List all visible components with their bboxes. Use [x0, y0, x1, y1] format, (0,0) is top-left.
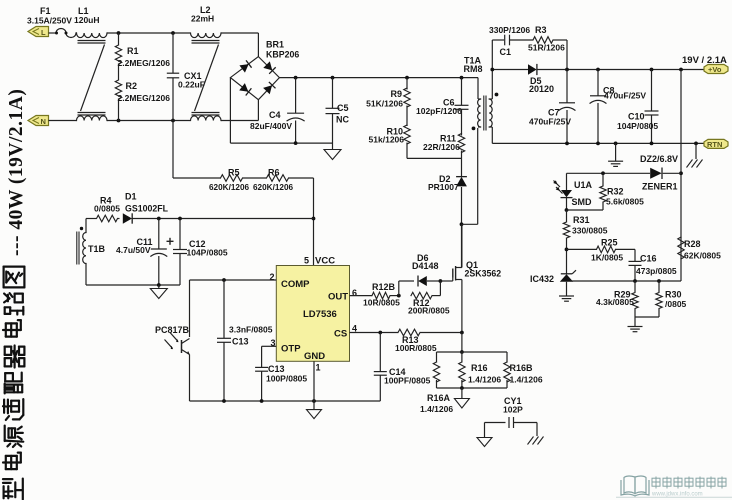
common-mode choke L1 (line winding): [74, 6, 107, 38]
svg-text:www.jdwx.info.com: www.jdwx.info.com: [651, 492, 703, 498]
optocoupler transistor PC817B: [155, 325, 190, 401]
svg-text:0.22uF: 0.22uF: [178, 80, 205, 90]
resistor R13 100R/0805: [395, 329, 464, 353]
svg-text:5.6k/0805: 5.6k/0805: [606, 197, 644, 207]
svg-text:+Vo: +Vo: [708, 65, 722, 74]
svg-text:--- 40W (19V/2.1A): --- 40W (19V/2.1A): [6, 89, 27, 256]
capacitor CY1 102P (Y-cap): [485, 396, 538, 438]
wire +Vo down to zener row and R28: [679, 70, 683, 282]
svg-text:C16: C16: [640, 254, 657, 264]
svg-text:BR1: BR1: [266, 40, 284, 50]
wire CX1 node down to R5: [173, 121, 221, 179]
svg-text:100R/0805: 100R/0805: [395, 343, 437, 353]
shunt regulator IC432: [530, 270, 576, 296]
svg-text:1K/0805: 1K/0805: [591, 253, 623, 263]
svg-text:3.15A/250V: 3.15A/250V: [27, 16, 72, 26]
common-mode choke L1 (neutral winding): [77, 116, 108, 121]
svg-text:C13: C13: [268, 364, 285, 374]
transformer T1A secondary winding: [489, 70, 492, 144]
resistor R29 4.3k/0805: [596, 281, 638, 317]
svg-text:120uH: 120uH: [74, 15, 100, 25]
resistor R6 620K/1206: [253, 168, 294, 193]
svg-text:IC432: IC432: [530, 274, 554, 284]
resistor R9 51K/1206: [404, 78, 410, 126]
svg-text:CS: CS: [334, 329, 347, 340]
svg-text:1.4/1206: 1.4/1206: [510, 375, 543, 385]
terminal RTN: [704, 139, 728, 149]
svg-text:82uF/400V: 82uF/400V: [250, 121, 292, 131]
svg-text:22mH: 22mH: [191, 14, 214, 24]
svg-text:R3: R3: [535, 25, 547, 35]
capacitor CX1 0.22uF (X-cap): [167, 33, 205, 121]
capacitor C6 102pF/1206: [455, 78, 469, 136]
svg-text:0/0805: 0/0805: [94, 204, 120, 214]
capacitor C5 NC: [326, 78, 350, 150]
svg-text:102pF/1206: 102pF/1206: [416, 106, 462, 116]
svg-text:620K/1206: 620K/1206: [209, 183, 250, 192]
svg-text:102P: 102P: [503, 405, 523, 415]
phase dot T1A secondary: [495, 93, 499, 97]
IC432 ground symbol: [559, 296, 574, 301]
resistor R12 200R/0805: [408, 281, 450, 316]
wire R6 to VCC node: [289, 178, 316, 266]
svg-text:/0805: /0805: [665, 299, 687, 309]
transformer T1A RM8 primary winding: [478, 78, 481, 127]
svg-text:2.2MEG/1206: 2.2MEG/1206: [118, 93, 171, 103]
capacitor C13 3.3nF/0805: [217, 280, 273, 401]
aux ground rail: [86, 283, 180, 288]
svg-text:104P/0805: 104P/0805: [617, 121, 658, 131]
op-amp/controller U LD7536: [276, 266, 349, 363]
capacitor C14 100PF/0805: [374, 333, 431, 402]
svg-text:10R/0805: 10R/0805: [363, 298, 400, 308]
svg-text:LD7536: LD7536: [303, 309, 337, 320]
svg-text:R5: R5: [228, 168, 240, 178]
svg-text:R16: R16: [471, 363, 488, 373]
wire primary bottom pin to drain node: [462, 128, 478, 224]
resistor R1 2.2MEG/1206: [115, 33, 170, 80]
wire L rail L1 to L2: [107, 31, 190, 35]
CY1 chassis ground symbol: [528, 437, 544, 445]
svg-text:3.3nF/0805: 3.3nF/0805: [229, 325, 273, 335]
svg-text:620K/1206: 620K/1206: [253, 183, 294, 192]
svg-text:62K/0805: 62K/0805: [684, 251, 721, 261]
svg-text:4.7u/50V: 4.7u/50V: [116, 245, 151, 255]
resistor R16A 1.4/1206: [420, 352, 453, 414]
svg-text:R6: R6: [268, 168, 280, 178]
pin 5 VCC label: [304, 256, 335, 267]
terminal L (AC line input): [28, 27, 49, 38]
diode D6 D4148 (turn-off): [399, 276, 443, 296]
diode D5 20120 (output rectifier): [490, 64, 554, 94]
svg-text:R12B: R12B: [372, 282, 396, 292]
terminal +Vo: [704, 65, 728, 75]
svg-text:GS1002FL: GS1002FL: [125, 204, 169, 214]
svg-text:R30: R30: [665, 290, 682, 300]
bridge rectifier BR1 KBP206: [230, 40, 299, 100]
sense bank bottom rail: [437, 386, 508, 398]
wire OUT pin to R12B: [350, 295, 373, 297]
svg-text:F1: F1: [40, 6, 51, 16]
pin 6 label: [352, 288, 357, 298]
svg-text:RM8: RM8: [464, 64, 483, 74]
resistor R12B 10R/0805: [363, 282, 401, 308]
wire N terminal to L1: [49, 120, 77, 122]
svg-text:470uF/25V: 470uF/25V: [604, 91, 646, 101]
svg-text:C13: C13: [232, 337, 249, 347]
resistor R4 0/0805: [86, 196, 120, 222]
svg-text:20120: 20120: [529, 84, 554, 94]
svg-text:1.4/1206: 1.4/1206: [420, 404, 453, 414]
svg-text:PR1007: PR1007: [428, 182, 459, 192]
svg-text:R28: R28: [684, 239, 701, 249]
snubber loop wire: [492, 40, 567, 70]
resistor R10 51k/1206: [404, 125, 462, 158]
svg-text:330P/1206: 330P/1206: [489, 25, 530, 35]
svg-text:C4: C4: [269, 110, 281, 120]
primary DC- bottom rail: [230, 141, 332, 145]
wire Q1 source to sense bank: [460, 333, 464, 354]
capacitor C16 473p/0805: [629, 249, 677, 281]
resistor R16B 1.4/1206: [504, 352, 543, 388]
svg-text:470uF/25V: 470uF/25V: [529, 117, 571, 127]
svg-text:OUT: OUT: [328, 292, 348, 303]
svg-text:RTN: RTN: [707, 140, 722, 149]
svg-text:5: 5: [304, 256, 309, 266]
primary logic ground rail: [190, 399, 381, 403]
svg-text:22R/1206: 22R/1206: [423, 142, 460, 152]
CY1 primary ground symbol: [477, 438, 492, 447]
resistor R3 51R/1206: [528, 25, 565, 53]
svg-text:51K/1206: 51K/1206: [366, 99, 403, 109]
svg-text:VCC: VCC: [315, 256, 335, 267]
resistor R2 2.2MEG/1206: [115, 80, 170, 121]
pin 4 label: [352, 324, 357, 334]
svg-text:R2: R2: [126, 81, 138, 91]
sense bank top rail: [437, 351, 508, 353]
transistor Q1 2SK3562 (MOSFET): [453, 224, 501, 332]
capacitor C4 82uF/400V (bulk): [250, 78, 304, 144]
svg-text:1: 1: [316, 363, 321, 373]
svg-text:R32: R32: [607, 187, 624, 197]
output +V rail: [537, 68, 704, 72]
svg-text:C1: C1: [500, 47, 512, 57]
sense ground symbol: [454, 399, 469, 409]
watermark url text: [616, 492, 732, 498]
zener row wire: [567, 171, 682, 175]
svg-text:6: 6: [352, 288, 357, 298]
wire CS pin to R13: [350, 331, 399, 335]
wire DC+ rail from bridge right corner: [279, 76, 478, 80]
secondary ground symbol: [608, 143, 623, 166]
output label 19V / 2.1A: [682, 55, 727, 66]
capacitor C8 470uF/25V: [590, 70, 646, 144]
wire COMP pin to opto collector node: [190, 278, 277, 337]
diode D2 PR1007 (clamp): [456, 158, 467, 267]
svg-text:51k/1206: 51k/1206: [369, 135, 405, 145]
wire R5 to R6: [243, 177, 267, 179]
phase dot T1A primary: [472, 126, 476, 130]
feedback ref row: [570, 279, 681, 283]
svg-text:D1: D1: [125, 192, 137, 202]
resistor R16 1.4/1206: [459, 352, 502, 388]
svg-text:R25: R25: [601, 238, 618, 248]
svg-text:C10: C10: [628, 112, 645, 122]
wire fuse to L1: [76, 32, 77, 34]
capacitor C13 100P/0805: [255, 364, 307, 401]
RTN rail: [492, 142, 704, 146]
wire L rail L2 to bridge top: [221, 33, 258, 57]
wire L terminal to fuse: [49, 32, 57, 34]
choke L1 core (Z symbol): [78, 41, 106, 116]
svg-text:R9: R9: [390, 89, 402, 99]
svg-text:473p/0805: 473p/0805: [636, 266, 677, 276]
svg-text:KBP206: KBP206: [266, 50, 299, 60]
svg-text:N: N: [41, 117, 46, 126]
svg-text:2.2MEG/1206: 2.2MEG/1206: [118, 58, 171, 68]
watermark text 家电维修资料网: [652, 477, 726, 489]
choke L2 core (Z symbol): [192, 41, 220, 116]
pin 2 label: [270, 272, 275, 282]
wire bridge negative (left corner) down to primary DC- rail: [229, 78, 231, 144]
svg-text:R16B: R16B: [510, 363, 534, 373]
svg-text:ZENER1: ZENER1: [642, 182, 678, 192]
svg-text:R16A: R16A: [427, 393, 451, 403]
svg-text:D4148: D4148: [412, 261, 439, 271]
wire OTP pin to C13: [262, 346, 277, 367]
svg-text:51R/1206: 51R/1206: [528, 43, 565, 53]
fuse F1: [55, 29, 76, 38]
svg-text:100PF/0805: 100PF/0805: [384, 376, 431, 386]
resistor R28 62K/0805: [678, 237, 721, 261]
chassis earth at RTN: [687, 143, 703, 167]
resistor R11 22R/1206: [423, 134, 465, 159]
resistor R30 /0805: [656, 281, 687, 317]
svg-text:2SK3562: 2SK3562: [465, 269, 502, 279]
watermark book icon: [621, 476, 649, 496]
svg-text:200R/0805: 200R/0805: [408, 306, 450, 316]
resistor R32 5.6k/0805: [567, 173, 645, 210]
vertical title 40W (19V/2.1A): [6, 89, 27, 256]
pin 1 label: [316, 363, 321, 373]
wire gate node to Q1 gate: [440, 278, 452, 282]
transformer T1A core: [484, 96, 486, 131]
svg-text:100P/0805: 100P/0805: [266, 374, 307, 384]
svg-text:GND: GND: [304, 351, 325, 362]
IC ground symbol: [307, 410, 322, 419]
svg-text:L: L: [41, 28, 46, 37]
svg-text:NC: NC: [336, 115, 349, 125]
svg-text:T1B: T1B: [88, 244, 106, 254]
capacitor C10 104P/0805: [617, 70, 659, 144]
transformer T1B aux winding: [77, 219, 106, 286]
svg-text:U1A: U1A: [574, 180, 593, 190]
common-mode choke L2 (neutral winding): [191, 116, 222, 121]
wire N rail L2 to bridge bottom: [221, 100, 258, 121]
svg-text:OTP: OTP: [281, 344, 301, 355]
svg-text:C5: C5: [337, 103, 349, 113]
svg-text:COMP: COMP: [281, 279, 310, 290]
wire N rail L1 to L2: [107, 119, 190, 123]
terminal N (AC neutral input): [28, 116, 49, 127]
capacitor C1 330P/1206: [489, 25, 530, 57]
R29 R30 bottom wire: [635, 317, 659, 327]
divider ground symbol: [628, 327, 643, 332]
resistor R31 330/0805: [563, 210, 607, 274]
resistor R25 1K/0805: [567, 238, 636, 263]
svg-text:4.3k/0805: 4.3k/0805: [596, 297, 634, 307]
capacitor C12 104P/0805: [173, 219, 228, 286]
primary ground below C5: [324, 150, 341, 160]
capacitor C11 4.7u/50V: [116, 219, 174, 286]
svg-text:SMD: SMD: [572, 197, 593, 207]
svg-text:R1: R1: [127, 46, 139, 56]
aux ground symbol: [150, 289, 167, 299]
svg-text:R31: R31: [573, 215, 590, 225]
svg-text:DZ2/6.8V: DZ2/6.8V: [640, 154, 678, 164]
phase dot T1B: [80, 227, 83, 230]
svg-text:PC817B: PC817B: [155, 325, 190, 335]
vertical title Chinese: 型电源适配器电路图: [3, 267, 24, 500]
common-mode choke L2 (line winding): [190, 5, 221, 38]
wire GND pin down: [313, 361, 315, 409]
svg-text:104P/0805: 104P/0805: [187, 248, 228, 258]
capacitor C7 470uF/25V: [529, 70, 575, 144]
svg-text:330/0805: 330/0805: [572, 226, 608, 236]
pin 3 label: [271, 338, 276, 348]
resistor R5 620K/1206: [209, 168, 250, 193]
diode D1 GS1002FL: [123, 213, 314, 223]
zener diode DZ2/6.8V ZENER1: [640, 154, 678, 192]
optocoupler LED U1A SMD: [553, 173, 592, 212]
svg-text:1.4/1206: 1.4/1206: [468, 375, 501, 385]
